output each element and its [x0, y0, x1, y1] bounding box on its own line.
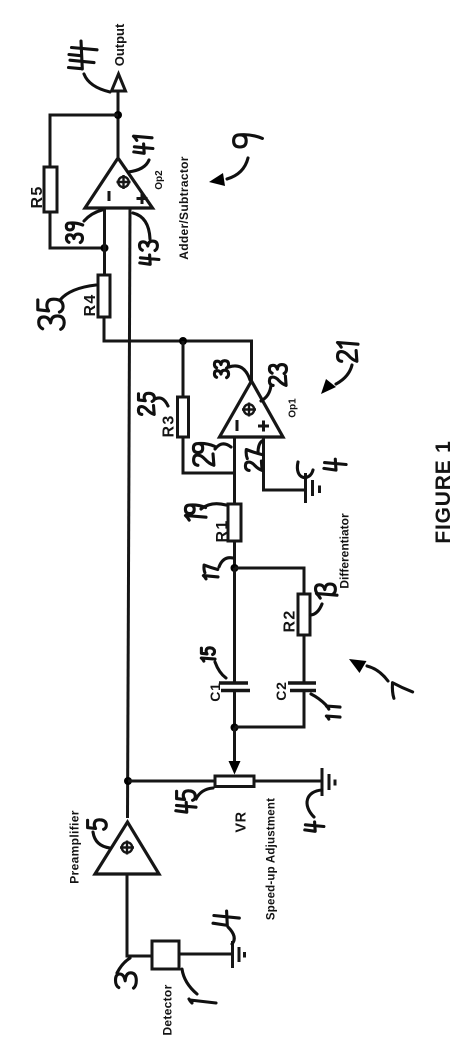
resistor R2: [298, 594, 310, 635]
svg-text:Output: Output: [112, 23, 127, 66]
wire from R2 to capacitor C2: [303, 635, 306, 682]
leader 4 VR ground: [307, 790, 322, 817]
resistor R4: [98, 275, 110, 317]
ref numeral 44: [69, 41, 98, 69]
ref numeral 17: [203, 565, 218, 579]
ref numeral 29: [193, 443, 214, 465]
potentiometer VR body: [215, 776, 254, 787]
op-amp U2 Op2: [85, 158, 153, 208]
leader 4 U1 ground: [297, 462, 313, 478]
wire from node to capacitor C1: [233, 568, 236, 682]
leader 3: [117, 958, 130, 973]
wire branch from node down to R2: [235, 568, 305, 594]
ref numeral 4 near U1 ground: [324, 459, 346, 470]
leader 25: [155, 398, 168, 406]
ref numeral 5: [88, 820, 107, 830]
node U2 inverting input junction: [101, 244, 109, 252]
ref numeral 43: [140, 241, 159, 264]
arrow 21 to Op1: [336, 365, 352, 384]
leader 13: [311, 604, 322, 615]
ref numeral 19: [185, 505, 206, 520]
svg-text:VR: VR: [234, 811, 250, 832]
U3 phi symbol: [120, 841, 134, 855]
leader 39: [84, 210, 102, 221]
leader 4 detector ground: [228, 927, 234, 944]
wire from VR to ground: [254, 780, 321, 783]
ref numeral 1: [189, 999, 216, 1003]
wire from tap to R3: [182, 341, 185, 397]
svg-text:Adder/Subtractor: Adder/Subtractor: [177, 156, 191, 260]
ground for VR: [322, 768, 335, 796]
node differentiator input junction: [231, 564, 239, 572]
node differentiator output junction: [231, 724, 239, 732]
wire from inverting node to R4: [103, 248, 106, 275]
capacitor C2: [288, 683, 316, 691]
wire from R4 left end down to op-amp U1 output: [104, 317, 252, 381]
ground for U1: [306, 473, 320, 503]
wire from R3 left end down to U1 inverting input line: [183, 437, 235, 473]
ref numeral 13: [316, 584, 338, 598]
ref numeral 33: [214, 361, 228, 378]
resistor R3: [178, 397, 189, 437]
leader 5: [93, 832, 110, 848]
ref numeral 15: [201, 648, 215, 661]
ref numeral 11: [326, 706, 340, 719]
svg-text:R1: R1: [214, 520, 231, 543]
node preamp output / VR tap junction: [124, 777, 132, 785]
op-amp preamplifier U3: [95, 822, 159, 874]
leader 44: [84, 74, 110, 92]
leader 27: [258, 441, 262, 453]
leader 35: [60, 285, 96, 300]
svg-text:Preamplifier: Preamplifier: [68, 810, 82, 884]
svg-text:Detector: Detector: [161, 984, 175, 1035]
svg-text:Op1: Op1: [288, 398, 299, 418]
arrow 9 to adder/subtractor: [227, 158, 248, 179]
svg-text:R2: R2: [282, 610, 299, 633]
ref numeral 35: [38, 299, 64, 329]
ref numeral 7: [392, 683, 412, 699]
ref numeral 45: [176, 791, 196, 812]
wire U2 inverting input stub: [103, 207, 106, 248]
wire with wiper arrow into VR: [233, 728, 236, 765]
ref numeral 27: [245, 450, 262, 471]
wire detector to ground: [179, 953, 231, 956]
leader 15: [215, 662, 226, 678]
U1 plus sign: [258, 421, 269, 432]
leader 43: [133, 213, 150, 239]
wire from R1 to differentiator node: [233, 541, 236, 568]
svg-text:R5: R5: [29, 186, 46, 209]
leader 23: [261, 385, 271, 401]
leader 41: [128, 160, 149, 172]
svg-text:C2: C2: [273, 681, 289, 701]
ref numeral 25: [138, 393, 154, 414]
U1 phi symbol: [242, 403, 256, 417]
wire feedback from output node up-left to R5: [50, 115, 118, 167]
resistor R5: [44, 167, 57, 212]
svg-text:C1: C1: [207, 682, 223, 702]
output terminal arrowhead: [112, 74, 126, 91]
ref numeral 3: [116, 973, 137, 988]
ref numeral 4 near detector ground: [213, 911, 239, 925]
svg-text:R4: R4: [82, 294, 99, 317]
node output junction: [114, 111, 122, 119]
ref numeral 23: [269, 365, 286, 386]
U2 minus sign: [108, 191, 111, 201]
wire from C1 to lower junction: [233, 691, 236, 728]
wire from bus node down to potentiometer VR: [128, 780, 215, 783]
capacitor C1: [219, 683, 250, 691]
U2 phi symbol: [117, 175, 131, 189]
U1 minus sign: [236, 420, 239, 431]
leader 1: [182, 969, 197, 994]
wire U1 non-inverting input to ground: [264, 437, 305, 490]
svg-text:Speed-up Adjustment: Speed-up Adjustment: [266, 798, 278, 920]
wire from C2 back up to lower junction: [235, 691, 305, 728]
svg-text:Differentiator: Differentiator: [338, 513, 352, 589]
ref numeral 21: [338, 343, 359, 362]
detector block: [152, 941, 179, 969]
wire U1 inverting input to R1: [233, 437, 236, 504]
leader 45: [196, 788, 213, 799]
node R3 feedback tap junction: [179, 337, 187, 345]
leader 11: [311, 694, 326, 705]
wiper arrowhead: [229, 761, 241, 775]
ref numeral 41: [134, 136, 153, 153]
svg-text:FIGURE 1: FIGURE 1: [432, 440, 455, 543]
op-amp U1 Op1: [220, 381, 284, 437]
svg-text:R3: R3: [161, 415, 178, 438]
U2 plus sign: [137, 193, 148, 204]
leader 19: [201, 504, 226, 509]
svg-text:Op2: Op2: [154, 170, 165, 190]
wire long bus from U2 non-inverting input to preamplifier output: [128, 207, 131, 818]
wire from R5 left end down to op-amp U2 inverting node: [50, 212, 104, 248]
leader 33: [229, 366, 250, 380]
resistor R1: [228, 504, 241, 541]
wire output line from op-amp U2 apex to output terminal: [117, 92, 120, 157]
ref numeral 9: [234, 135, 263, 147]
ground for detector: [233, 941, 245, 968]
arrow 7 to differentiator: [367, 666, 388, 681]
ref numeral 39: [66, 223, 82, 243]
leader 17: [219, 558, 233, 567]
wire preamp input to detector: [127, 874, 152, 956]
leader 29: [215, 444, 231, 449]
ref numeral 4 near VR ground: [305, 822, 324, 831]
